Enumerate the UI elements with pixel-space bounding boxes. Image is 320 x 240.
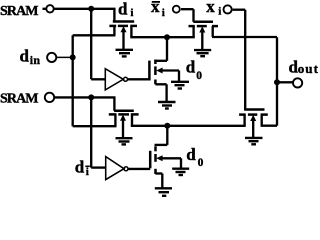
svg-text:i: i (86, 166, 89, 178)
svg-text:d: d (118, 0, 128, 19)
svg-text:x: x (206, 0, 215, 16)
svg-text:d: d (186, 145, 196, 164)
svg-text:d: d (186, 58, 196, 77)
svg-text:d: d (20, 47, 30, 66)
svg-text:out: out (298, 61, 319, 76)
svg-text:0: 0 (198, 157, 204, 169)
svg-text:in: in (30, 53, 41, 67)
svg-text:i: i (162, 7, 165, 19)
svg-text:d: d (75, 158, 85, 177)
svg-text:0: 0 (196, 70, 202, 82)
svg-text:SRAM: SRAM (0, 92, 38, 107)
svg-text:SRAM: SRAM (0, 4, 38, 19)
svg-text:i: i (130, 7, 133, 19)
svg-text:i: i (218, 6, 221, 18)
